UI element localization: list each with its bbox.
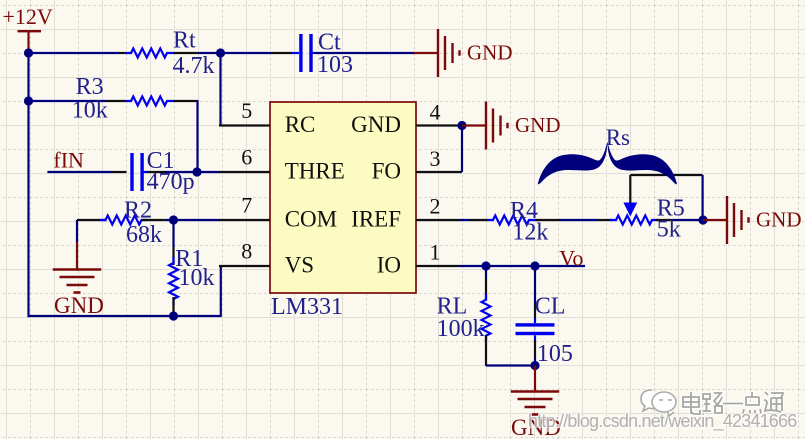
label RL value 100k	[437, 316, 485, 342]
label R2	[124, 198, 152, 224]
svg-text:fIN: fIN	[53, 148, 84, 173]
wire R2 pin right	[141, 219, 165, 221]
label R5	[657, 196, 685, 222]
svg-text:GND: GND	[467, 41, 513, 65]
pin 1 IO	[377, 240, 460, 278]
ground earth left	[53, 270, 104, 319]
label R4	[510, 198, 538, 224]
svg-text:GND: GND	[515, 113, 561, 137]
pin 7 COM	[219, 193, 337, 232]
capacitor CL	[516, 323, 555, 335]
label R3	[76, 74, 104, 100]
junction +12V/R3	[24, 96, 33, 105]
wire R2 left corner	[77, 219, 106, 221]
svg-text:2: 2	[430, 194, 441, 219]
svg-text:1: 1	[430, 240, 441, 265]
junction C1/R3/pin6	[192, 167, 201, 176]
label Rt value 4.7k	[173, 53, 215, 79]
label Rs	[606, 125, 630, 150]
wire C1 pin right	[144, 171, 167, 173]
brace Rs	[538, 142, 677, 185]
junction pin4/FO	[457, 121, 466, 130]
label Ct value 103	[317, 52, 353, 78]
resistor R5 potentiometer	[610, 216, 658, 225]
junction R1/bottom rail	[169, 311, 178, 320]
watermark wechat icon	[641, 390, 676, 416]
svg-text:5: 5	[241, 98, 252, 123]
svg-text:4.7k: 4.7k	[173, 53, 215, 79]
svg-text:Vo: Vo	[559, 246, 583, 271]
svg-text:8: 8	[241, 239, 252, 264]
svg-text:12k: 12k	[512, 220, 548, 246]
wire R4 pin right	[535, 219, 559, 221]
junction R2/R1/pin7	[169, 215, 178, 224]
wire C1 to pin6	[166, 171, 220, 173]
svg-text:R3: R3	[76, 74, 104, 100]
svg-text:10k: 10k	[179, 265, 215, 291]
label R1	[175, 246, 203, 272]
wire Rt to Ct	[198, 52, 272, 54]
svg-text:GND: GND	[756, 208, 802, 232]
svg-text:FO: FO	[372, 159, 401, 184]
wire FO to GND node	[461, 126, 463, 173]
wire to bottom ground	[534, 366, 536, 392]
resistor RL	[482, 294, 491, 342]
junction RL top	[481, 261, 490, 270]
pin 5 RC	[219, 98, 315, 137]
svg-text:Rs: Rs	[606, 125, 630, 150]
svg-text:GND: GND	[54, 293, 104, 318]
svg-text:RC: RC	[285, 112, 316, 137]
net label fIN	[53, 148, 84, 173]
junction CL top	[530, 261, 539, 270]
label R2 value 68k	[126, 222, 162, 248]
svg-text:COM: COM	[285, 207, 337, 232]
wire CL top	[534, 266, 536, 323]
svg-text:470p: 470p	[147, 169, 195, 195]
wire Ct pin right	[313, 52, 317, 54]
svg-text:3: 3	[430, 146, 441, 171]
label R5 value 5k	[657, 217, 681, 243]
wire R2 to pin7	[165, 219, 220, 221]
wire R3 pin right	[173, 100, 198, 102]
wire R1 bottom	[172, 297, 174, 316]
wire R5 to GND	[674, 219, 703, 221]
resistor R3	[125, 97, 173, 106]
svg-text:6: 6	[241, 145, 252, 170]
svg-text:R2: R2	[124, 198, 152, 224]
svg-text:7: 7	[241, 193, 252, 218]
pin 8 VS	[219, 239, 314, 278]
pin 3 FO	[372, 146, 462, 184]
op-amp U1 LM331 body	[270, 102, 416, 293]
wire R4 to R5	[559, 219, 612, 221]
ground port right GND	[703, 196, 802, 244]
watermark wechat text	[683, 392, 783, 414]
wire output bottom rail	[486, 364, 535, 366]
wire RL top	[485, 266, 487, 300]
svg-text:+12V: +12V	[3, 4, 53, 29]
svg-text:5k: 5k	[657, 217, 681, 243]
ground port top GND	[414, 29, 513, 77]
wire left vertical rail	[27, 52, 29, 317]
label Rt	[173, 28, 196, 54]
wire wiper horizontal	[630, 174, 702, 176]
junction CL bottom/GND	[530, 361, 539, 370]
power +12V	[3, 4, 53, 53]
label R3 value 10k	[72, 98, 108, 124]
resistor R1	[169, 257, 178, 305]
wire fIN input	[47, 171, 126, 173]
label RL	[437, 294, 468, 320]
wire bottom rail	[29, 315, 221, 317]
wire wiper vertical	[701, 175, 703, 220]
wire R2 to ground	[76, 220, 78, 269]
wire Ct pin left	[271, 52, 299, 54]
wire CL bottom	[534, 335, 536, 366]
ground earth bottom	[511, 392, 561, 439]
svg-text:68k: 68k	[126, 222, 162, 248]
svg-text:103: 103	[317, 52, 353, 78]
pin 4 GND	[351, 100, 459, 138]
svg-text:http://blog.csdn.net/weixin_42: http://blog.csdn.net/weixin_42341666	[528, 411, 797, 432]
svg-text:105: 105	[537, 341, 573, 367]
capacitor Ct	[299, 34, 312, 72]
svg-text:100k: 100k	[437, 316, 485, 342]
svg-text:VS: VS	[285, 253, 314, 278]
label C1	[147, 148, 175, 174]
resistor R2	[100, 216, 148, 225]
junction +12V/Rt	[24, 48, 33, 57]
svg-text:10k: 10k	[72, 98, 108, 124]
resistor R4	[487, 216, 535, 225]
ground port pin4 GND	[462, 102, 561, 150]
svg-text:Rt: Rt	[173, 28, 196, 54]
pin 2 IREF	[351, 194, 460, 232]
svg-text:4: 4	[430, 100, 441, 125]
wire R5 pin right	[656, 219, 674, 221]
svg-text:CL: CL	[535, 294, 566, 320]
capacitor C1	[130, 153, 143, 191]
wire R3 left	[29, 100, 126, 102]
label CL	[535, 294, 566, 320]
wire pin1 to Vo	[460, 265, 585, 267]
label Ct	[318, 30, 341, 56]
label C1 value 470p	[147, 169, 195, 195]
wire top to Rt	[29, 52, 126, 54]
junction R5/wiper/GND	[698, 215, 707, 224]
resistor Rt	[125, 49, 173, 58]
label LM331	[271, 294, 343, 320]
wire Ct to GND	[316, 52, 414, 54]
svg-text:IREF: IREF	[351, 207, 401, 232]
svg-text:LM331: LM331	[271, 294, 343, 320]
pin 6 THRE	[219, 145, 345, 184]
svg-text:GND: GND	[351, 112, 401, 137]
svg-text:THRE: THRE	[285, 159, 345, 184]
label R1 value 10k	[179, 265, 215, 291]
wire pin2 to R4	[460, 219, 488, 221]
net label Vo	[559, 246, 583, 271]
label CL value 105	[537, 341, 573, 367]
wire R3 down to pin6 node	[196, 100, 198, 172]
junction Rt/pin5	[216, 48, 225, 57]
wire R1 top	[172, 220, 174, 265]
wire Rt pin right	[173, 52, 198, 54]
wire RL bottom	[485, 336, 487, 366]
wire pin8 vertical	[220, 266, 222, 317]
label R4 value 12k	[512, 220, 548, 246]
svg-text:IO: IO	[377, 253, 401, 278]
watermark url	[528, 411, 797, 432]
potentiometer wiper arrow	[623, 175, 637, 217]
wire pin5 vertical	[219, 53, 221, 126]
